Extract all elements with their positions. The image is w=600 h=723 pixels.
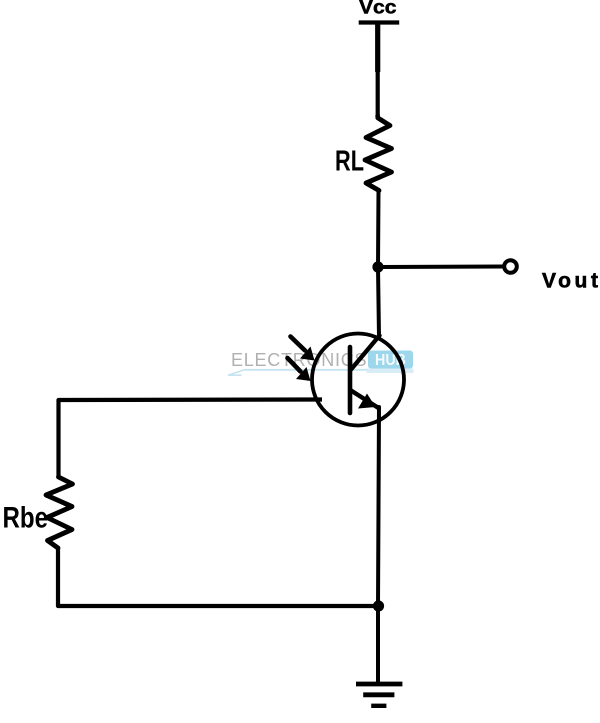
light arrow 1 — [291, 337, 315, 361]
phototransistor Q1 emitter arrowhead — [358, 394, 376, 409]
wire node to ground — [376, 606, 380, 684]
ground bar 3 — [371, 704, 386, 708]
resistor RL — [365, 116, 392, 191]
junction node at bottom — [373, 600, 384, 611]
phototransistor Q1 emitter stroke — [351, 391, 379, 409]
wire node to phototransistor collector — [378, 267, 379, 337]
resistor Rbe — [46, 477, 73, 548]
wire Vcc to RL — [375, 23, 380, 73]
svg-text:RL: RL — [335, 146, 364, 178]
watermark Electronics Hub — [228, 350, 414, 375]
wire emitter down to bottom node — [378, 407, 379, 606]
svg-text:Vcc: Vcc — [359, 0, 397, 19]
junction node at Vout — [372, 261, 383, 272]
phototransistor Q1 base bar — [348, 347, 353, 413]
ground bar 1 — [356, 682, 402, 687]
wire Rbe to bottom rail — [58, 548, 378, 606]
ground bar 2 — [363, 692, 394, 697]
light arrow 2 — [288, 358, 311, 381]
power rail Vcc bar — [359, 20, 400, 24]
terminal Vout (open circle) — [504, 260, 517, 273]
phototransistor Q1 collector stroke — [351, 336, 380, 370]
wire node to Vout terminal — [378, 265, 503, 270]
wire base to left rail — [59, 400, 323, 478]
svg-text:Rbe: Rbe — [3, 502, 49, 535]
phototransistor Q1 body circle — [312, 334, 404, 426]
wire RL to output node — [376, 190, 381, 267]
